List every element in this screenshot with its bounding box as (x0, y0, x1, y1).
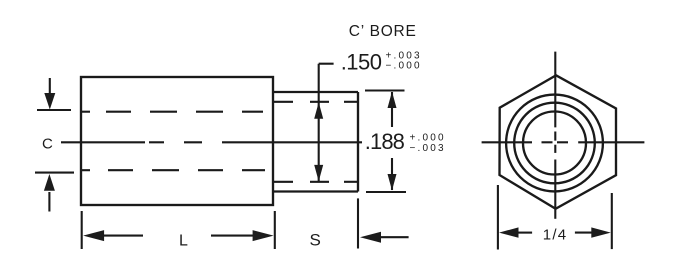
dimension L extension lines (82, 211, 275, 249)
dimension S extension line (358, 198, 409, 248)
dimension .188 extension lines (365, 91, 406, 193)
circle: tapped hole (523, 112, 586, 175)
dimension C arrows (44, 78, 55, 212)
circle: counterbore (514, 103, 595, 184)
centerline horizontal (end view) (482, 141, 645, 143)
svg-text:C: C (42, 136, 53, 153)
dimension C extension lines (35, 110, 74, 173)
hidden line: tapped hole top (81, 111, 263, 113)
svg-text:.188: .188 (365, 129, 405, 154)
dimension L line and arrows (83, 230, 274, 241)
circle: stud OD (506, 95, 603, 192)
centerline vertical (end view) (554, 52, 556, 219)
svg-text:−.000: −.000 (386, 61, 422, 72)
hidden line: tapped hole bottom (81, 169, 265, 171)
stud outline (side view small cylinder) (273, 92, 358, 192)
leader line for .150 counterbore (319, 64, 334, 182)
hexagon (end view) (500, 75, 617, 209)
dimension 1/4 extension lines (498, 185, 612, 250)
dimension 1/4 line and arrows (499, 227, 611, 237)
hidden line: counterbore top (274, 101, 358, 103)
dimension .150 arrows (314, 102, 323, 181)
centerline (side view axis) (61, 141, 362, 143)
svg-text:1/4: 1/4 (543, 226, 567, 243)
svg-text:L: L (179, 232, 188, 249)
svg-text:S: S (310, 231, 321, 250)
svg-text:C’ BORE: C’ BORE (349, 23, 417, 40)
dimension .188 line and arrows (388, 92, 397, 191)
svg-text:−.003: −.003 (410, 143, 446, 154)
body outline (side view main rectangle) (81, 77, 273, 205)
svg-text:.150: .150 (341, 50, 382, 75)
hidden line: counterbore bottom (274, 181, 358, 183)
